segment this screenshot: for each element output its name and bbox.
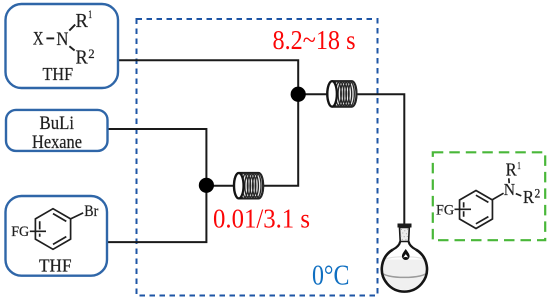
svg-text:THF: THF [43,64,74,84]
svg-text:1: 1 [88,9,92,21]
svg-text:8.2~18 s: 8.2~18 s [273,25,356,55]
svg-text:THF: THF [39,256,72,276]
svg-text:R: R [523,187,534,207]
svg-text:FG: FG [11,224,29,240]
svg-text:N: N [56,30,68,50]
svg-text:X: X [33,30,44,50]
svg-text:FG: FG [436,203,454,219]
svg-text:BuLi: BuLi [40,114,75,134]
svg-text:2: 2 [88,46,94,61]
svg-text:0°C: 0°C [312,260,350,291]
svg-text:0.01/3.1 s: 0.01/3.1 s [213,203,310,233]
svg-text:Br: Br [84,203,99,220]
svg-text:N: N [504,180,515,199]
svg-text:R: R [76,47,88,68]
svg-text:R: R [506,160,517,180]
svg-text:R: R [76,11,88,32]
svg-text:2: 2 [535,186,541,200]
svg-text:Hexane: Hexane [32,133,82,153]
svg-text:1: 1 [517,160,521,172]
